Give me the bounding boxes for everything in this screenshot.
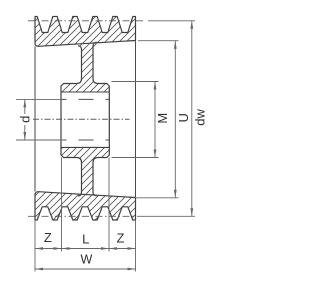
W dimension line	[35, 268, 136, 270]
rim inner silhouette verticals	[35, 41, 136, 198]
M dimension line with arrows	[154, 82, 156, 158]
U extension lines	[133, 41, 179, 198]
svg-text:M: M	[155, 113, 170, 124]
svg-text:W: W	[80, 253, 92, 267]
dw dimension line with arrows	[191, 21, 193, 217]
dw extension lines	[137, 21, 195, 217]
Z L Z dimension line	[35, 248, 136, 250]
d extension lines	[16, 99, 64, 140]
M extension lines	[112, 82, 159, 158]
center axis dash-dot line	[33, 118, 130, 120]
svg-text:Z: Z	[117, 231, 125, 246]
bore dashed lines (max bore)	[61, 99, 109, 140]
svg-text:L: L	[82, 232, 89, 247]
svg-text:Z: Z	[44, 230, 52, 245]
pitch line dash-dot top	[28, 20, 144, 22]
svg-text:U: U	[176, 113, 191, 122]
web top (hatched column with fillets)	[77, 42, 99, 84]
hub bottom band (hatched)	[61, 147, 109, 157]
bore solid lines	[61, 92, 109, 147]
svg-text:d: d	[18, 116, 33, 123]
d dimension line with arrows	[24, 99, 26, 140]
hub top band (hatched)	[61, 84, 109, 93]
pulley rim top section (hatched)	[35, 17, 136, 47]
web bottom (hatched column with fillets)	[77, 158, 99, 195]
svg-text:dw: dw	[193, 108, 208, 125]
bottom extension verticals	[35, 158, 136, 272]
U dimension line with arrows	[174, 41, 176, 198]
pitch line dash-dot bottom	[28, 215, 136, 217]
hub outline	[61, 84, 109, 158]
pulley rim bottom section (hatched, mirrored)	[35, 192, 136, 220]
